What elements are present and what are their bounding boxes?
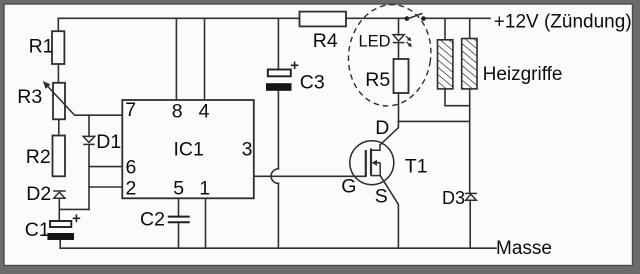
wire T1 source to ground bbox=[380, 176, 398, 249]
capacitor C1 plus plate bbox=[50, 221, 71, 227]
potentiometer R3 body bbox=[53, 83, 65, 120]
wire R3 wiper to IC1 pin7 bbox=[75, 114, 122, 116]
wire drain node to load node bbox=[399, 120, 470, 122]
LED emission arrows bbox=[406, 36, 412, 46]
svg-text:Heizgriffe: Heizgriffe bbox=[483, 64, 563, 85]
switch blade bbox=[407, 13, 423, 19]
resistor R5 bbox=[394, 59, 409, 93]
wire LED anode from +12V bbox=[398, 18, 400, 35]
svg-text:G: G bbox=[341, 176, 356, 198]
wire load node to D3 bbox=[469, 89, 471, 193]
IC IC1 body bbox=[122, 100, 254, 198]
capacitor C1 polarity plus bbox=[73, 215, 81, 223]
T1 gate bar bbox=[365, 150, 367, 176]
wire +12V rail left segment bbox=[58, 18, 299, 31]
T1 body-source link bbox=[379, 163, 381, 176]
wire R3 to R2 bbox=[58, 119, 60, 135]
wire C3 to ground upper bbox=[277, 91, 279, 169]
wire D2/C1 node to pins 2-6 column bbox=[59, 208, 89, 210]
transistor T1 body circle bbox=[350, 141, 394, 185]
wire heater right top lead bbox=[469, 18, 471, 38]
wire IC1 pin8 to +12V bbox=[175, 18, 177, 100]
ground rail Masse bbox=[60, 247, 496, 249]
capacitor C3 polarity plus bbox=[291, 62, 299, 70]
svg-text:5: 5 bbox=[173, 178, 184, 200]
wire C3 to +12V bbox=[277, 18, 279, 69]
heater element right Heizgriffe bbox=[462, 39, 477, 89]
svg-text:7: 7 bbox=[125, 99, 136, 121]
capacitor C1 minus plate bbox=[47, 233, 74, 240]
T1 body arrow bbox=[372, 160, 381, 166]
diode D2 bbox=[53, 191, 65, 198]
wire IC1 pin2 bbox=[89, 186, 122, 188]
svg-text:1: 1 bbox=[199, 178, 210, 200]
wire C1 to ground rail bbox=[59, 240, 61, 248]
capacitor C3 minus plate bbox=[266, 83, 292, 91]
capacitor C2 bbox=[168, 217, 190, 223]
svg-text:4: 4 bbox=[199, 101, 210, 123]
wire D2 anode down to C1 bbox=[58, 198, 60, 221]
diode D3 bbox=[465, 193, 477, 200]
wire hop over pin3 wire bbox=[271, 169, 278, 184]
wire R1 to R3 bbox=[57, 64, 59, 83]
svg-text:S: S bbox=[375, 186, 388, 208]
T1 source stub bbox=[371, 175, 380, 177]
svg-text:LED: LED bbox=[359, 32, 391, 50]
svg-text:C1: C1 bbox=[25, 219, 50, 241]
wire IC1 pin1 to ground bbox=[205, 198, 207, 248]
wire D3 to ground bbox=[469, 200, 471, 248]
wire heater left top lead bbox=[444, 18, 446, 40]
wire IC1 pin5 to C2 bbox=[178, 198, 180, 216]
capacitor C3 plus plate bbox=[268, 70, 291, 77]
LED symbol bbox=[393, 35, 405, 43]
svg-text:R4: R4 bbox=[313, 30, 338, 52]
T1 channel bar bbox=[370, 149, 372, 176]
wire IC1 pin6 bbox=[89, 166, 122, 168]
resistor R2 bbox=[53, 136, 66, 177]
svg-text:8: 8 bbox=[172, 101, 183, 123]
wire +12V rail right segment bbox=[423, 17, 490, 19]
wire IC1 pin4 to +12V bbox=[204, 18, 206, 100]
dashed ellipse around LED indicator bbox=[342, 0, 437, 111]
wire node D1 branch upper bbox=[88, 115, 90, 136]
wire R5 to drain node bbox=[398, 93, 400, 121]
svg-text:Masse: Masse bbox=[496, 238, 552, 259]
svg-text:R5: R5 bbox=[365, 69, 390, 91]
svg-text:R2: R2 bbox=[26, 146, 51, 168]
wire C2 to ground bbox=[178, 223, 180, 248]
svg-text:IC1: IC1 bbox=[174, 139, 204, 161]
wire +12V rail mid segment bbox=[346, 17, 407, 19]
svg-text:R1: R1 bbox=[29, 36, 54, 58]
wire C3 to ground lower bbox=[277, 183, 279, 248]
svg-text:+12V (Zündung): +12V (Zündung) bbox=[494, 12, 632, 33]
svg-text:D1: D1 bbox=[96, 131, 121, 153]
diode D1 bbox=[83, 136, 95, 144]
svg-text:D: D bbox=[375, 117, 389, 139]
svg-text:3: 3 bbox=[242, 139, 253, 161]
resistor R4 bbox=[300, 12, 347, 27]
svg-text:D3: D3 bbox=[442, 188, 465, 208]
svg-text:2: 2 bbox=[126, 178, 137, 200]
wire LED to R5 bbox=[398, 43, 400, 59]
svg-text:C3: C3 bbox=[300, 72, 325, 94]
svg-text:C2: C2 bbox=[140, 208, 165, 230]
svg-text:D2: D2 bbox=[26, 183, 51, 205]
svg-text:6: 6 bbox=[126, 157, 137, 179]
resistor R1 bbox=[52, 31, 64, 64]
heater element left Heizgriffe bbox=[438, 40, 453, 89]
wire heater bottoms join bbox=[445, 89, 470, 106]
svg-text:R3: R3 bbox=[17, 86, 42, 108]
potentiometer R3 wiper arrow bbox=[43, 81, 75, 116]
T1 drain stub bbox=[371, 145, 380, 150]
switch contact dot left bbox=[405, 16, 410, 21]
wire D1 to pins 6/2 column bbox=[88, 145, 90, 209]
svg-text:T1: T1 bbox=[405, 155, 428, 177]
switch contact dot right bbox=[421, 16, 426, 21]
wire IC1 pin3 output to T1 gate bbox=[254, 175, 366, 177]
wire T1 drain lead bbox=[380, 121, 398, 144]
